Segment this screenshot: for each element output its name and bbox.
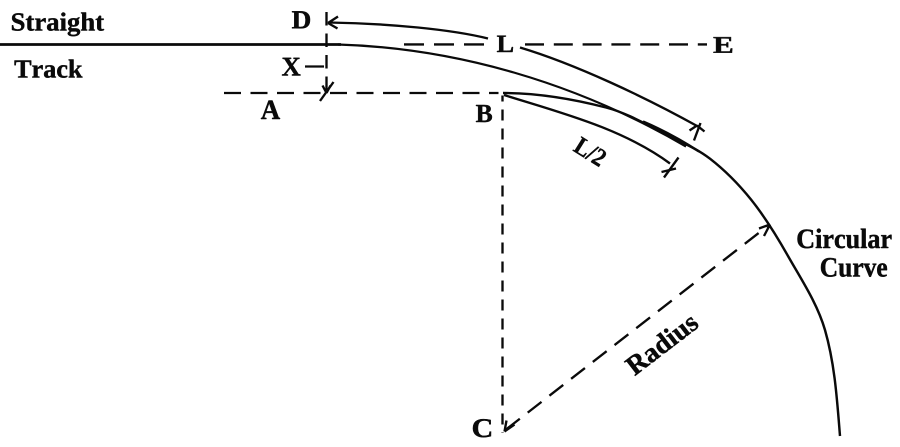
L dimension arc end tick slash (694, 123, 701, 141)
circular curve from B through junction to bottom (503, 93, 840, 436)
L dimension arc (right of label L) (520, 48, 698, 127)
label Track (15, 59, 83, 77)
X tick dash from label to line (305, 65, 324, 67)
label Circular (798, 229, 892, 249)
L dimension arc end arrow barbs (690, 126, 705, 132)
label Straight (12, 12, 104, 36)
L/2 arc end arrow barb (662, 169, 677, 173)
straight track line (0, 43, 341, 46)
L/2 arc end arrow slash (664, 158, 679, 178)
vertical dashed line through D and X (325, 12, 327, 94)
radius dashed line from C to circular curve (506, 227, 767, 430)
junction overlap thickening where transition meets circular curve (643, 122, 699, 152)
label Radius (rotated) (623, 311, 699, 376)
radius arrowhead at C end (505, 421, 515, 432)
dashed tangent line D to E (right part) (525, 43, 707, 45)
label C (473, 419, 491, 437)
L dimension arc (left of label L) (329, 23, 488, 39)
label Curve (821, 258, 887, 277)
X dimension bottom arrow barbs (323, 86, 331, 94)
label X (282, 58, 301, 76)
dashed tangent line D to E (left part) (404, 43, 487, 45)
label L (497, 36, 513, 52)
dashed line A to B (224, 92, 499, 94)
radius arrowhead at curve end (759, 225, 770, 237)
X dimension bottom arrow slash (320, 82, 334, 101)
label E (714, 37, 733, 53)
L/2 dimension arc from B (504, 95, 670, 164)
label D (292, 11, 310, 28)
vertical dashed line B to C (501, 96, 503, 434)
transition curve from D to junction (338, 45, 686, 147)
L dimension arc left arrow (at D) (328, 17, 338, 29)
label A (261, 101, 280, 119)
label B (476, 105, 492, 122)
label L/2 (rotated) (572, 136, 607, 167)
